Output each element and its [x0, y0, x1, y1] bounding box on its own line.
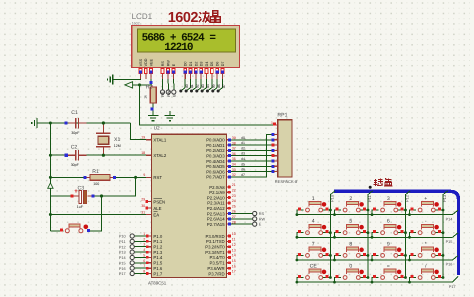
- node button right: [87, 229, 90, 232]
- U2 pin 2 P1.1: [143, 237, 163, 244]
- junction rail/EA row: [49, 213, 52, 216]
- RP1 side node d5: [272, 160, 275, 163]
- LCD pin D3: [200, 62, 204, 80]
- terminal dot d3: [195, 90, 198, 93]
- svg-text:17: 17: [232, 270, 236, 274]
- resistor R1: [85, 169, 116, 186]
- U2 pin 12 P3.2/INT0: [205, 243, 236, 250]
- U2 pin 29 PSEN: [141, 197, 165, 204]
- ground (under R2): [152, 112, 154, 116]
- svg-text:d5: d5: [211, 84, 215, 88]
- U2 pin 34 P0.5/AD5: [206, 163, 236, 170]
- svg-text:14: 14: [232, 254, 236, 258]
- LCD pin VDD: [144, 58, 148, 79]
- svg-text:P15: P15: [119, 261, 126, 265]
- svg-text:33: 33: [232, 168, 236, 172]
- LCD pin E: [172, 63, 176, 79]
- U2 pin 15 P3.5/T1: [210, 259, 236, 266]
- wire keypad row P17: [297, 276, 458, 282]
- svg-text:D5: D5: [210, 62, 214, 67]
- U2 pin 32 P0.7/AD7: [206, 173, 236, 180]
- svg-text:RESPACK-8: RESPACK-8: [275, 179, 298, 184]
- svg-text:P2.5/A13: P2.5/A13: [207, 211, 225, 216]
- LCD pin D5: [210, 62, 214, 80]
- svg-text:d0: d0: [241, 136, 245, 140]
- svg-text:1602: 1602: [132, 22, 140, 26]
- wire R2 bottom to ground: [152, 103, 154, 116]
- LCD pin RW: [166, 60, 170, 79]
- svg-text:P0.2/AD2: P0.2/AD2: [206, 148, 225, 153]
- U2 pin 25 P2.4/A12: [207, 204, 236, 211]
- wire LCD D2 pin to net label d2: [191, 75, 195, 92]
- svg-text:P1.3: P1.3: [153, 250, 162, 255]
- svg-text:P12: P12: [405, 194, 410, 202]
- svg-text:P3.2/INT0: P3.2/INT0: [205, 245, 225, 250]
- U2 pin 19 XTAL1: [141, 136, 167, 143]
- LCD pin D1: [189, 62, 193, 80]
- svg-text:12: 12: [232, 243, 236, 247]
- wire XTAL2 net (C2 row to MCU pin 18): [50, 154, 65, 156]
- svg-text:12210: 12210: [164, 42, 193, 54]
- svg-text:d6: d6: [217, 84, 221, 88]
- wire P0.6 to RP1 (net d6): [231, 166, 272, 171]
- RP1 side node d2: [272, 144, 275, 147]
- svg-text:37: 37: [232, 147, 236, 151]
- wire P0.5 to RP1 (net d5): [231, 161, 272, 166]
- wire P0.2 to RP1 (net d2): [231, 145, 272, 150]
- terminal dot d1: [185, 90, 188, 93]
- svg-text:P11: P11: [367, 194, 372, 202]
- title 1602 LCD (red): [168, 10, 220, 26]
- svg-text:32: 32: [232, 173, 236, 177]
- U2 pin 24 P2.3/A11: [207, 199, 236, 206]
- push button 2 (row 1, col 2): [333, 196, 369, 216]
- svg-text:D6: D6: [216, 62, 220, 67]
- U2 pin 36 P0.3/AD3: [206, 152, 236, 159]
- U2 pin 27 P2.6/A14: [207, 215, 236, 222]
- wire LCD D7 pin to net label d7: [218, 75, 222, 92]
- LCD pin D6: [216, 62, 220, 80]
- svg-text:P13: P13: [442, 194, 447, 202]
- svg-text:25: 25: [232, 204, 236, 208]
- wire C3 row (rail to C3): [50, 195, 71, 197]
- svg-text:0: 0: [349, 264, 352, 270]
- terminal dot d5: [206, 90, 209, 93]
- U2 pin 5 P1.4: [143, 253, 163, 260]
- terminal RW (LCD side): [166, 90, 170, 94]
- U2 pin 37 P0.2/AD2: [206, 147, 236, 154]
- svg-text:VDD: VDD: [144, 58, 148, 66]
- svg-text:24: 24: [232, 199, 236, 203]
- LCD pin D4: [205, 62, 209, 80]
- svg-text:d3: d3: [241, 152, 245, 156]
- bus keypad (blue): [334, 191, 459, 275]
- U2 pin 18 XTAL2: [141, 151, 167, 158]
- resistor pack RP1 RESPACK-8: [275, 112, 298, 184]
- wire RST net (R1 to MCU pin 9): [116, 176, 147, 178]
- terminal dot d6: [211, 90, 214, 93]
- terminal P10: [130, 234, 134, 238]
- wire P0.7 to RP1 (net d7): [231, 172, 272, 177]
- svg-text:5: 5: [349, 219, 352, 225]
- U2 pin 14 P3.4/T0: [210, 254, 236, 261]
- power terminal (left arrow, VEE contrast net): [125, 82, 133, 88]
- junction rail/R1 row: [49, 176, 52, 179]
- svg-text:d3: d3: [201, 84, 205, 88]
- svg-text:29: 29: [141, 197, 145, 201]
- microcontroller U2 AT89C51: [148, 126, 227, 286]
- wire keypad row P15: [297, 233, 458, 237]
- svg-text:d7: d7: [222, 84, 226, 88]
- svg-text:9: 9: [387, 241, 390, 247]
- U2 pin 23 P2.2/A10: [207, 194, 236, 201]
- svg-text:34: 34: [232, 163, 236, 167]
- push button 1 (row 1, col 1): [296, 196, 332, 216]
- push button CE (row 4, col 1): [296, 264, 332, 284]
- U2 pin 6 P1.5: [143, 259, 163, 266]
- junction RST/C3: [134, 176, 137, 179]
- svg-text:E: E: [259, 223, 262, 227]
- wire P2.7 to terminal E: [231, 223, 253, 225]
- svg-text:1: 1: [143, 232, 145, 236]
- svg-text:D2: D2: [194, 62, 198, 67]
- svg-text:P2.4/A12: P2.4/A12: [207, 206, 225, 211]
- title keypad (Chinese): [374, 178, 393, 186]
- capacitor C3 (electrolytic): [71, 186, 92, 210]
- node VSS square: [139, 70, 142, 73]
- RP1 side node d1: [272, 138, 275, 141]
- terminal P16: [130, 266, 134, 270]
- wire P2.5 to terminal RS: [231, 213, 253, 215]
- terminal RW (MCU side): [253, 217, 257, 221]
- push button 6 (row 2, col 3): [371, 219, 407, 239]
- svg-text:28: 28: [232, 220, 236, 224]
- svg-text:d4: d4: [206, 84, 210, 88]
- svg-text:C1: C1: [71, 110, 78, 116]
- svg-text:P3.5/T1: P3.5/T1: [210, 261, 226, 266]
- capacitor C1: [69, 110, 87, 135]
- push button 7 (row 3, col 1): [296, 241, 332, 261]
- crystal X1: [96, 133, 121, 148]
- terminal P14: [130, 255, 134, 259]
- wire P0.1 to RP1 (net d1): [231, 140, 272, 145]
- svg-text:P13: P13: [119, 251, 126, 255]
- U2 pin 30 ALE: [141, 204, 161, 211]
- wire crystal bottom stub: [102, 147, 104, 155]
- svg-text:8: 8: [349, 241, 352, 247]
- capacitor C2: [65, 145, 87, 167]
- U2 pin 17 P3.7/RD: [208, 270, 235, 277]
- svg-text:P0.7/AD7: P0.7/AD7: [206, 175, 225, 180]
- terminal dot d4: [201, 90, 204, 93]
- svg-text:4: 4: [312, 219, 315, 225]
- wire VEE net to power arrow: [133, 84, 140, 86]
- terminal RS (LCD side): [160, 90, 164, 94]
- resistor R2: [143, 85, 156, 103]
- U2 pin 39 P0.0/AD0: [206, 136, 236, 143]
- wire P0.4 to RP1 (net d4): [231, 156, 272, 161]
- svg-text:31: 31: [141, 210, 145, 214]
- svg-text:26: 26: [232, 210, 236, 214]
- node R2 bottom: [150, 107, 153, 110]
- junction dot below keypad title: [369, 186, 372, 189]
- svg-text:U2: U2: [154, 126, 160, 132]
- wire C3 right to RST junction: [92, 177, 136, 196]
- wire keypad column P11: [368, 191, 373, 278]
- svg-text:AT89C51: AT89C51: [148, 280, 167, 285]
- svg-text:P3.7/RD: P3.7/RD: [208, 271, 224, 276]
- push button * (row 3, col 4): [408, 241, 444, 261]
- node C3 left: [70, 195, 73, 198]
- wire LCD D5 pin to net label d5: [207, 75, 211, 92]
- terminal P12: [130, 245, 134, 249]
- svg-text:LCD1: LCD1: [132, 12, 153, 21]
- svg-text:18: 18: [141, 151, 145, 155]
- svg-text:d7: d7: [241, 173, 245, 177]
- junction crystal bottom: [102, 154, 105, 157]
- push button 3 (row 1, col 3): [371, 196, 407, 216]
- terminal P11: [130, 239, 134, 243]
- wire LCD D3 pin to net label d3: [197, 75, 201, 92]
- svg-text:P0.0/AD0: P0.0/AD0: [206, 138, 225, 143]
- svg-text:C3: C3: [78, 186, 85, 192]
- wire keypad column P13: [443, 191, 448, 278]
- node C1 left: [64, 121, 67, 124]
- wire LCD D0 pin to net label d0: [181, 75, 185, 92]
- svg-text:9: 9: [143, 173, 145, 177]
- svg-text:P2.6/A14: P2.6/A14: [207, 217, 225, 222]
- U2 pin 13 P3.3/INT1: [205, 248, 236, 255]
- svg-text:R1: R1: [92, 169, 99, 175]
- svg-text:30pF: 30pF: [71, 163, 80, 167]
- node VEE net corner: [149, 81, 152, 84]
- wire keypad column P12: [406, 191, 411, 278]
- U2 pin 33 P0.6/AD6: [206, 168, 236, 175]
- svg-text:d2: d2: [241, 146, 245, 150]
- svg-text:P10: P10: [330, 194, 335, 202]
- junction crystal top: [102, 121, 105, 124]
- RP1 side node d7: [272, 170, 275, 173]
- U2 pin 31 EA: [141, 210, 159, 217]
- svg-text:11: 11: [232, 238, 236, 242]
- svg-text:P16: P16: [119, 267, 126, 271]
- push button 9 (row 3, col 3): [371, 241, 407, 261]
- node C2 left: [65, 154, 68, 157]
- svg-text:13: 13: [232, 248, 236, 252]
- svg-text:XTAL2: XTAL2: [153, 153, 166, 158]
- svg-text:d4: d4: [241, 157, 245, 161]
- svg-text:21: 21: [232, 183, 236, 187]
- ground (top-left, C1/C2 rail): [37, 122, 41, 124]
- svg-text:23: 23: [232, 194, 236, 198]
- svg-text:27: 27: [232, 215, 236, 219]
- svg-text:19: 19: [141, 136, 145, 140]
- svg-text:22: 22: [232, 189, 236, 193]
- svg-text:3: 3: [143, 243, 145, 247]
- junction VEE/arrow/RP1: [138, 83, 141, 86]
- terminal P13: [130, 250, 134, 254]
- wire crystal top stub: [102, 123, 104, 133]
- svg-text:d5: d5: [241, 162, 245, 166]
- reset push button: [60, 224, 88, 233]
- wire LCD E pin to terminal: [173, 75, 175, 90]
- svg-text:38: 38: [232, 141, 236, 145]
- svg-text:6: 6: [143, 259, 145, 263]
- svg-text:P0.5/AD5: P0.5/AD5: [206, 164, 225, 169]
- push button = (row 4, col 3): [371, 264, 407, 284]
- wire VEE contrast net: [140, 75, 152, 85]
- wire keypad row P16: [297, 256, 458, 260]
- wire reset button vertical to C3 net: [90, 196, 102, 231]
- svg-text:PSEN: PSEN: [153, 199, 165, 204]
- wire LCD D6 pin to net label d6: [213, 75, 217, 92]
- node C3 right: [92, 195, 95, 198]
- RP1 side node d6: [272, 165, 275, 168]
- wire LCD RS pin to terminal: [162, 75, 164, 90]
- svg-text:1602: 1602: [168, 10, 199, 26]
- U2 pin 3 P1.2: [143, 243, 163, 250]
- svg-text:P0.3/AD3: P0.3/AD3: [206, 154, 225, 159]
- svg-text:P2.7/A15: P2.7/A15: [207, 222, 225, 227]
- svg-text:d0: d0: [185, 84, 189, 88]
- svg-text:7: 7: [143, 264, 145, 268]
- svg-text:RST: RST: [153, 175, 162, 180]
- wire R2 top stub: [151, 85, 153, 87]
- svg-text:P14: P14: [119, 256, 126, 260]
- LCD pin VEE: [149, 58, 153, 79]
- push button / (row 4, col 4): [408, 264, 444, 284]
- svg-text:P14: P14: [446, 217, 453, 221]
- svg-text:10: 10: [232, 232, 236, 236]
- U2 pin 16 P3.6/WR: [207, 264, 235, 271]
- node R1 right: [113, 176, 116, 179]
- svg-text:P0.6/AD6: P0.6/AD6: [206, 169, 225, 174]
- svg-text:39: 39: [232, 136, 236, 140]
- RP1 side node d4: [272, 154, 275, 157]
- svg-text:ALE: ALE: [153, 206, 161, 211]
- svg-text:30pF: 30pF: [71, 131, 80, 135]
- svg-text:36: 36: [232, 152, 236, 156]
- U2 pin 28 P2.7/A15: [207, 220, 236, 227]
- U2 pin 35 P0.4/AD4: [206, 157, 236, 164]
- svg-text:2: 2: [349, 196, 352, 202]
- LCD pin VSS: [139, 58, 143, 79]
- ground (free, right of R2): [165, 111, 175, 121]
- svg-text:D1: D1: [189, 62, 193, 67]
- svg-text:d1: d1: [190, 84, 194, 88]
- svg-text:VSS: VSS: [139, 58, 143, 66]
- wire rail to reset button: [50, 230, 61, 232]
- wire XTAL1 net (C1 row to MCU pin 19): [37, 122, 131, 124]
- power terminal (up arrow on rail): [48, 183, 53, 188]
- wire EA net (rail to MCU pin 31): [50, 214, 146, 216]
- terminal P17: [130, 271, 134, 275]
- svg-text:P17: P17: [119, 272, 126, 276]
- svg-text:12M: 12M: [114, 144, 121, 148]
- U2 pin 8 P1.7: [143, 270, 163, 277]
- svg-text:1uF: 1uF: [77, 205, 84, 209]
- svg-text:16: 16: [232, 264, 236, 268]
- svg-text:P1.2: P1.2: [153, 245, 162, 250]
- svg-text:P2.0/A8: P2.0/A8: [209, 185, 225, 190]
- push button + (row 1, col 4): [408, 196, 444, 216]
- svg-text:15: 15: [232, 259, 236, 263]
- svg-text:8: 8: [143, 270, 145, 274]
- svg-text:-: -: [425, 219, 427, 225]
- svg-text:P16: P16: [446, 263, 453, 267]
- svg-text:=: =: [387, 264, 390, 270]
- LCD pin D2: [194, 62, 198, 80]
- svg-text:*: *: [425, 241, 427, 247]
- svg-text:+: +: [424, 196, 427, 202]
- svg-text:d2: d2: [195, 84, 199, 88]
- svg-text:35: 35: [232, 157, 236, 161]
- terminal dot d0: [179, 90, 182, 93]
- wire keypad column P10: [330, 191, 335, 278]
- svg-text:CE: CE: [310, 264, 318, 270]
- U2 pin 11 P3.1/TXD: [206, 238, 236, 245]
- wire LCD RW pin to terminal: [167, 75, 169, 90]
- svg-text:RS: RS: [161, 61, 165, 67]
- svg-text:P3.1/TXD: P3.1/TXD: [206, 239, 225, 244]
- terminal P15: [130, 261, 134, 265]
- U2 pin 9 RST: [143, 173, 162, 180]
- wire LCD D4 pin to net label d4: [202, 75, 206, 92]
- RP1 side node d3: [272, 149, 275, 152]
- svg-text:P0.4/AD4: P0.4/AD4: [206, 159, 225, 164]
- svg-text:d1: d1: [241, 141, 245, 145]
- wire P1 pins to terminals P10-P17: [134, 235, 146, 237]
- U2 pin 10 P3.0/RXD: [205, 232, 235, 239]
- push button - (row 2, col 4): [408, 219, 444, 239]
- node R1 left: [83, 176, 86, 179]
- svg-text:P12: P12: [119, 245, 126, 249]
- svg-text:5: 5: [143, 253, 145, 257]
- svg-text:D3: D3: [200, 62, 204, 67]
- junction rail/C2 row: [49, 154, 52, 157]
- junction C3/button: [100, 194, 103, 197]
- U2 pin 26 P2.5/A13: [207, 210, 236, 217]
- LCD display LCD1 (LM016L 1602): [132, 26, 240, 68]
- svg-text:P15: P15: [446, 240, 453, 244]
- push button 4 (row 2, col 1): [296, 219, 332, 239]
- U2 pin 38 P0.1/AD1: [206, 141, 236, 148]
- wire VSS to ground: [113, 75, 141, 80]
- svg-text:C2: C2: [71, 145, 78, 151]
- svg-text:RW: RW: [167, 90, 171, 97]
- svg-text:P2.2/A10: P2.2/A10: [207, 195, 225, 200]
- U2 pin 7 P1.6: [143, 264, 163, 271]
- svg-text:4: 4: [143, 248, 145, 252]
- svg-text:P0.1/AD1: P0.1/AD1: [206, 143, 225, 148]
- svg-text:P1.6: P1.6: [153, 266, 162, 271]
- svg-text:P10: P10: [119, 235, 126, 239]
- terminal dot d2: [190, 90, 193, 93]
- svg-text:P3.6/WR: P3.6/WR: [207, 266, 224, 271]
- svg-text:RW: RW: [166, 60, 170, 67]
- svg-text:D0: D0: [184, 62, 188, 67]
- RP1 pin 1: [271, 121, 278, 125]
- svg-text:P3.4/T0: P3.4/T0: [210, 255, 226, 260]
- svg-text:P1.0: P1.0: [153, 234, 162, 239]
- svg-text:2: 2: [143, 237, 145, 241]
- LCD pin RS: [161, 61, 165, 80]
- terminal dot d7: [217, 90, 220, 93]
- svg-text:RW: RW: [259, 217, 266, 221]
- junction rail/C1 row: [49, 122, 52, 125]
- svg-text:EA: EA: [153, 212, 159, 217]
- svg-text:1k: 1k: [143, 95, 147, 99]
